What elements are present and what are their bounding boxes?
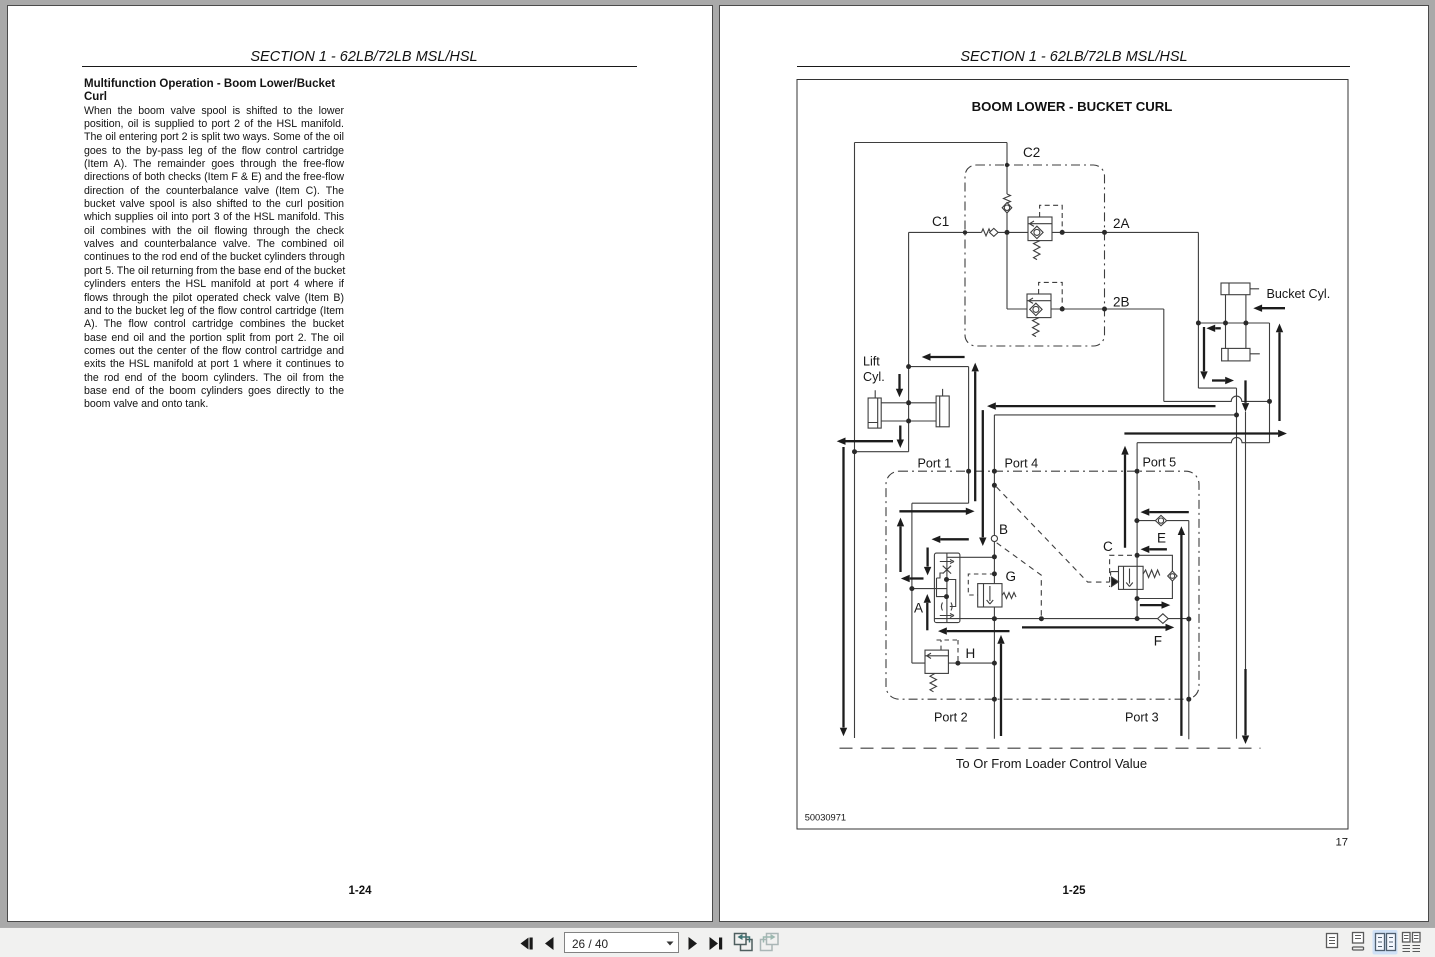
flow arrow right into manifold	[899, 510, 966, 512]
lift cylinder barrel	[881, 403, 936, 421]
wire x1235 down to bottom	[1236, 388, 1238, 739]
C2 dash-dot box	[965, 165, 1105, 346]
arrowheads	[922, 353, 931, 360]
check valve on C1 line: spring	[982, 229, 991, 236]
wire 2B line	[1051, 308, 1164, 310]
wire y441 to port5 with hop	[1137, 437, 1269, 442]
counterbalance valve C: dashed box	[1110, 555, 1132, 587]
wire C1 line	[909, 231, 1199, 233]
continuous view icon	[1353, 933, 1364, 951]
wire bucket left branch	[1198, 323, 1236, 388]
two-page view icon (selected)	[1373, 930, 1398, 955]
single page view icon	[1327, 934, 1338, 948]
svg-text:Port 3: Port 3	[1125, 711, 1159, 725]
wire E corner down port3	[1188, 521, 1190, 740]
flow arrow left above A	[940, 538, 969, 540]
flow arrow left at bucket port	[1215, 327, 1221, 329]
flow arrow left beside A	[910, 577, 924, 579]
HSL manifold dash-dot box	[886, 471, 1199, 699]
flow arrow left above lift cyl	[930, 356, 965, 358]
relief valve H: pilot dashes	[937, 640, 959, 662]
wire bucket right down	[1269, 323, 1271, 443]
counterbalance valve C: box	[1119, 566, 1144, 589]
dashed diagonal B pilot to C	[997, 487, 1110, 582]
A: orifice brackets	[941, 603, 952, 611]
svg-text:17: 17	[1336, 837, 1349, 849]
svg-text:Port 4: Port 4	[1005, 457, 1039, 471]
wire manifold bottom bus	[934, 618, 1189, 620]
wire port4 vertical to B	[993, 415, 995, 536]
wire port1 vertical	[912, 503, 925, 663]
bucket cylinder bottom cap	[1222, 348, 1250, 361]
compensator valve G: pilot dashes	[968, 574, 994, 595]
flow arrow down port4	[982, 410, 984, 537]
check valve on C2 drop: spring	[1004, 194, 1011, 203]
flow arrow right below bucket	[1212, 379, 1225, 381]
check valve on C1 line: seat diamond	[990, 228, 999, 236]
wire 2B corner down	[1163, 309, 1165, 401]
relief valve H: spring below	[930, 673, 937, 691]
wire CB lower input	[1007, 232, 1027, 309]
svg-text:A: A	[914, 601, 923, 616]
compensator valve G: spring right	[1002, 593, 1016, 599]
flow arrow left lower-left	[846, 440, 894, 442]
check valve E: diamond+circle	[1155, 515, 1166, 525]
flow arrow down into lift cyl	[898, 374, 900, 389]
counterbalance valve upper: box	[1028, 217, 1052, 241]
left page	[7, 5, 713, 922]
svg-text:2A: 2A	[1113, 216, 1130, 231]
flow arrow down left of bucket	[1203, 327, 1205, 371]
compensator valve G: box	[978, 584, 1002, 607]
wire 2B to bucket node with hop	[1164, 396, 1270, 401]
wire 2A corner down	[1197, 232, 1199, 323]
check valve on C2 drop: seat diamond	[1002, 203, 1012, 213]
flow arrow left above E	[1149, 511, 1189, 513]
svg-text:B: B	[999, 522, 1008, 537]
svg-text:Cyl.: Cyl.	[863, 370, 885, 384]
next-view button (disabled)	[761, 934, 779, 951]
bucket cylinder top cap	[1221, 283, 1250, 295]
bucket cylinder barrel	[1226, 295, 1246, 349]
svg-text:C1: C1	[932, 214, 949, 229]
next-page button	[689, 937, 698, 950]
flow arrow up left of A	[899, 527, 901, 573]
svg-text:Lift: Lift	[863, 355, 880, 369]
flow arrow left into bucket cyl	[1262, 307, 1285, 309]
page number box	[565, 933, 679, 953]
flow arrow down bucket rod	[1244, 380, 1246, 402]
counterbalance valve lower: pilot dashes	[1039, 282, 1063, 309]
svg-text:26 / 40: 26 / 40	[572, 937, 609, 951]
wire port5 drop	[1136, 443, 1138, 472]
A: inner loop	[947, 580, 956, 607]
flow arrow left to H	[947, 630, 1010, 632]
flow arrow left port4 feeder	[996, 405, 1216, 407]
last-page button	[710, 937, 719, 950]
wire A valve top to B wire	[947, 556, 995, 558]
check valve on C bypass: diamond+circle	[1168, 571, 1177, 581]
wire E check line	[1137, 520, 1189, 522]
svg-text:To Or From Loader Control Valu: To Or From Loader Control Value	[956, 756, 1147, 771]
wire C1 corner down through lift cyl	[855, 232, 909, 451]
counterbalance valve lower: spring below	[1033, 318, 1040, 337]
diagram frame	[797, 80, 1348, 830]
flow arrow down at A	[926, 548, 928, 567]
wire x1244 down	[1245, 412, 1247, 669]
previous-view button	[735, 934, 753, 951]
svg-text:C: C	[1103, 539, 1113, 554]
svg-text:Bucket Cyl.: Bucket Cyl.	[1267, 287, 1331, 301]
relief valve H: box	[925, 650, 948, 673]
wire bucket rod stubs	[1228, 289, 1260, 354]
wire bucket top line	[1198, 322, 1269, 324]
loader boundary dashed line	[840, 747, 1261, 749]
flow control cartridge A: outer box	[934, 553, 960, 623]
counterbalance valve lower: box	[1027, 294, 1051, 318]
check valve F: diamond	[1158, 614, 1169, 624]
svg-text:G: G	[1006, 569, 1017, 584]
flow arrow right long to bucket	[1124, 432, 1278, 434]
wire H output	[948, 662, 994, 664]
counterbalance valve upper: spring below	[1034, 241, 1041, 260]
wire top horizontal	[855, 142, 1008, 144]
wire C bypass loop	[1137, 555, 1172, 598]
pilot check B circle	[991, 535, 997, 541]
wire port4 feeder	[994, 414, 1236, 416]
svg-text:BOOM LOWER - BUCKET CURL: BOOM LOWER - BUCKET CURL	[972, 99, 1173, 114]
flow arrow up port2	[1000, 644, 1002, 736]
prev-page button	[545, 937, 554, 950]
flow arrow left at E	[1149, 548, 1167, 550]
A: variable orifice X	[943, 566, 951, 574]
flow arrow down below lift cyl	[899, 426, 901, 440]
right page	[719, 5, 1429, 922]
wire B to G to port2	[993, 541, 995, 739]
flow arrow down far left	[842, 447, 844, 728]
bottom toolbar	[0, 927, 1435, 957]
svg-text:C2: C2	[1023, 145, 1040, 160]
flow arrow down bottom right	[1244, 669, 1246, 735]
flow arrow up below A	[926, 603, 928, 631]
lift cylinder left cap	[868, 398, 881, 428]
flow arrow up port5	[1124, 455, 1126, 548]
flow arrow up right of bucket	[1278, 332, 1280, 421]
wire check to C1 junction	[1006, 212, 1008, 232]
first-page button	[521, 938, 529, 950]
counterbalance valve upper: pilot dashes	[1040, 205, 1063, 232]
flow arrow up port3	[1180, 535, 1182, 736]
flow arrow up port1	[974, 372, 976, 502]
flow arrow right below C	[1140, 604, 1162, 606]
wire A valve feed	[912, 588, 947, 590]
svg-text:H: H	[966, 646, 976, 661]
svg-text:50030971: 50030971	[805, 813, 846, 823]
dashed diagonal B to bottom bus	[997, 543, 1042, 617]
two-page continuous icon	[1403, 933, 1421, 952]
counterbalance valve C: spring right	[1143, 570, 1160, 578]
svg-text:Port 2: Port 2	[934, 711, 968, 725]
wire port5 inside manifold	[1136, 471, 1138, 618]
svg-text:2B: 2B	[1113, 295, 1130, 310]
svg-text:E: E	[1157, 531, 1166, 546]
svg-text:Port 5: Port 5	[1143, 456, 1177, 470]
wire left long vertical	[854, 143, 856, 739]
wire C2 down to spring	[1006, 143, 1008, 195]
wire port1 tee	[909, 367, 969, 504]
svg-text:Port 1: Port 1	[918, 457, 952, 471]
svg-text:F: F	[1154, 634, 1162, 649]
node dots	[1005, 163, 1009, 167]
lift cylinder right cap	[936, 396, 949, 427]
counterbalance valve C: pilot triangle	[1111, 572, 1119, 576]
flow arrow right to F	[1022, 626, 1166, 628]
